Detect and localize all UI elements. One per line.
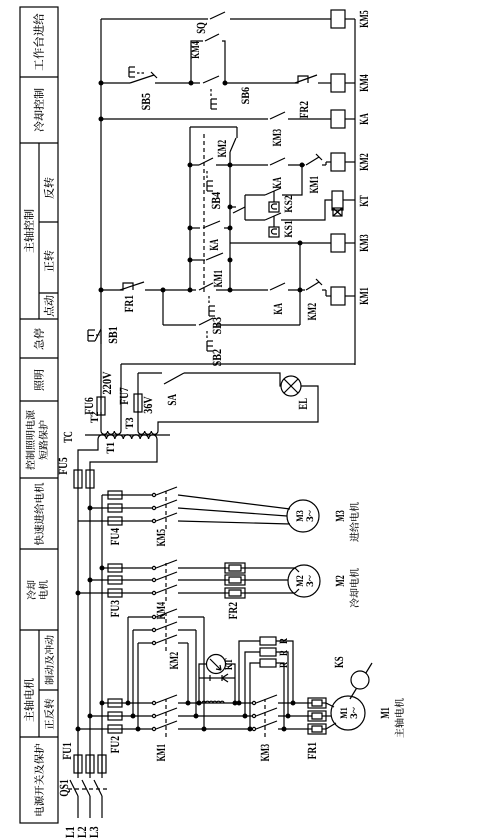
svg-text:SB6: SB6: [240, 87, 252, 105]
inductor on phase a: [202, 701, 224, 703]
svg-text:KM1: KM1: [211, 270, 225, 287]
node R loop b bottom: [286, 714, 290, 718]
node FR1 branch junction: [99, 288, 103, 292]
header cell spindle-control sub dividers: [38, 143, 40, 319]
wire FR1 branch upper: [101, 289, 120, 291]
wire jog tie: [299, 243, 301, 325]
wire bus L2 after QS1: [89, 488, 91, 778]
wire KM3 coil branch: [230, 242, 331, 244]
header label reverse: [44, 188, 54, 198]
resistor R phase b: [245, 652, 260, 716]
wire lighting return: [158, 386, 318, 431]
svg-text:FU5: FU5: [56, 457, 70, 474]
pushbutton SB6 start: [203, 76, 219, 83]
wire rail gap at SB1: [100, 330, 102, 344]
overload FR1 heaters: [308, 698, 326, 708]
wire KM4 branch upper: [101, 82, 130, 84]
resistor R phase c: [250, 663, 260, 729]
node N1: [161, 288, 165, 292]
node KM2 tap a: [126, 701, 130, 705]
svg-text:KM4: KM4: [357, 74, 371, 92]
wire spindle to FR1: [278, 702, 308, 704]
fuse FU4: [108, 491, 122, 499]
coil KM4: [331, 74, 345, 92]
node jog tie on KM3 branch: [298, 241, 302, 245]
svg-text:KM2: KM2: [305, 303, 319, 320]
wire rapid phases top: [78, 520, 108, 522]
wire KS2 output: [282, 165, 302, 195]
wire cooling to FR2: [178, 567, 225, 569]
wire N1 to SB2 branch: [162, 290, 164, 325]
node cooling tap L2: [88, 578, 92, 582]
fuse FU2: [108, 699, 122, 707]
wire KS bracket: [244, 195, 246, 220]
coil KM2: [331, 153, 345, 171]
lamp EL: [281, 376, 301, 396]
wire cooling mid: [122, 567, 152, 569]
contactor KM4 main contacts: [152, 566, 155, 569]
label spindle motor text: [395, 728, 404, 737]
thermal contact FR2: [295, 75, 317, 83]
wire KM2 crossover to phase c: [178, 616, 204, 618]
thermal contact FR1: [120, 282, 144, 290]
wire T2 to FU6: [100, 412, 102, 431]
svg-text:KM1: KM1: [307, 176, 321, 193]
node KA branch top: [99, 117, 103, 121]
wire to KM1 coil: [322, 289, 326, 291]
node R loop a top: [237, 701, 241, 705]
contact KM1 selfhold: [190, 259, 205, 261]
fuse FU5 phase b: [86, 470, 94, 488]
wire tie Ta: [189, 127, 191, 290]
node SB4 top: [188, 163, 192, 167]
svg-text:R: R: [278, 649, 290, 655]
svg-text:KM5: KM5: [154, 529, 168, 546]
svg-text:KM2: KM2: [357, 153, 371, 170]
wire SB4 lower: [216, 164, 268, 166]
fuse FU3: [108, 564, 122, 572]
pushbutton SB2 jog: [199, 318, 213, 325]
pushbutton SB4 start rev: [190, 164, 199, 166]
wire control bottom rail: [354, 19, 356, 365]
node R loop a bottom: [291, 701, 295, 705]
svg-text:KA: KA: [357, 113, 371, 125]
link KS to Tb with NC: [230, 206, 236, 208]
motor M3: [287, 500, 319, 532]
transformer T1 primary winding: [98, 435, 157, 439]
fuse FU5 phase a: [74, 470, 82, 488]
resistor R phase a: [239, 641, 260, 703]
wire KM2 top tie b: [132, 630, 134, 716]
wire tie Tb: [229, 152, 231, 290]
header label spindle control: [24, 242, 34, 252]
svg-text:FU4: FU4: [108, 527, 122, 545]
interlock KM2 NC on KM1 branch: [306, 282, 319, 290]
wire FU7 to SA: [137, 373, 139, 394]
header label fwd-rev: [44, 720, 53, 730]
contact KM3 aux: [270, 112, 285, 119]
wire KA branch: [101, 118, 268, 120]
wire KS1 to KT: [281, 200, 332, 220]
wire KM3aux to KA coil: [288, 118, 331, 120]
speed relay KS: [351, 671, 369, 689]
wire spindle phases down: [178, 702, 252, 704]
header label jog: [44, 307, 54, 317]
speed contact KS2: [245, 194, 265, 196]
mechanical link dashed row: [203, 134, 205, 292]
header label brake and jog: [45, 675, 54, 684]
node KS2 join: [300, 163, 304, 167]
header table column dividers: [20, 736, 58, 738]
label cooling motor text: [350, 598, 359, 607]
header label e-stop: [34, 340, 44, 350]
wire FR1 to node N1: [145, 289, 163, 291]
node KM2 tap c: [136, 727, 140, 731]
svg-text:KM2: KM2: [167, 652, 181, 669]
svg-text:FR1: FR1: [122, 295, 136, 312]
svg-text:KM3: KM3: [270, 129, 284, 146]
coil KT time relay: [332, 191, 343, 210]
svg-text:KM4: KM4: [190, 41, 202, 59]
wire bus L1: [77, 796, 79, 818]
clutch KT device frame: [199, 664, 235, 703]
coil KM3: [331, 234, 345, 252]
wire bus L1 after QS1: [77, 488, 79, 778]
wire SA to EL: [184, 373, 281, 386]
node jog tie on KM1 branch: [298, 288, 302, 292]
header label table feed: [34, 60, 43, 71]
wire T3 to FU7: [137, 411, 139, 431]
node R loop c top: [248, 727, 252, 731]
contact KA3 on KM2 branch: [270, 158, 285, 165]
svg-text:FR1: FR1: [305, 742, 319, 759]
wire KM5 branch: [101, 18, 208, 20]
transformer T3 secondary winding: [138, 431, 158, 434]
node spindle tap L3: [100, 701, 104, 705]
wire cooling phases top: [78, 592, 108, 594]
svg-text:KS2: KS2: [283, 195, 295, 213]
svg-text:SB5: SB5: [139, 93, 153, 110]
fuse FU6: [97, 397, 105, 415]
node cooling tap L1: [76, 591, 80, 595]
wire KM1 branch mid: [288, 289, 305, 291]
contact KA rung: [190, 227, 200, 229]
svg-text:3~: 3~: [349, 706, 360, 719]
node Ta left: [188, 288, 192, 292]
interlock KM1 NC on KM2 branch: [306, 157, 319, 165]
svg-text:SB4: SB4: [209, 191, 223, 209]
svg-text:3~: 3~: [305, 574, 316, 587]
svg-text:SB3: SB3: [210, 317, 224, 334]
pushbutton SB5 stop: [130, 75, 154, 83]
svg-text:KM1: KM1: [154, 744, 168, 761]
coil KA: [331, 110, 345, 128]
fuse FU1: [74, 755, 82, 773]
wire KM2 branch mid: [288, 164, 305, 166]
svg-text:TC: TC: [61, 431, 75, 443]
node spindle tap L2: [88, 714, 92, 718]
svg-text:3~: 3~: [305, 509, 316, 522]
label feed motor text: [350, 532, 359, 541]
rectifier KT circle: [207, 655, 226, 674]
contact KA2 on KM1 branch: [270, 283, 285, 290]
svg-text:FU6: FU6: [82, 397, 96, 414]
node selfhold top: [189, 81, 193, 85]
motor M2: [288, 565, 320, 597]
node rapid tap L2: [88, 506, 92, 510]
wire FR1 to M1: [326, 703, 334, 707]
svg-text:KM1: KM1: [357, 287, 371, 304]
coil KM5: [331, 10, 345, 28]
node selfhold bottom: [223, 81, 227, 85]
clutch KT armature: [199, 677, 210, 679]
svg-text:M3: M3: [333, 510, 347, 522]
wire SB3 upper: [163, 289, 196, 291]
wire SB5 to SB6: [155, 82, 200, 84]
node R loop b top: [243, 714, 247, 718]
motor M1: [331, 696, 365, 730]
node R loop c bottom: [282, 727, 286, 731]
wire bus L3 after QS1: [101, 495, 103, 778]
svg-text:KS1: KS1: [283, 220, 295, 238]
wire spindle phase c: [102, 702, 108, 704]
header label lighting: [34, 380, 44, 390]
svg-text:220V: 220V: [100, 371, 114, 394]
wire KM2 crossover to phase a: [178, 642, 188, 644]
node KM4 branch top: [99, 81, 103, 85]
wire KM2 top tie a: [127, 617, 129, 703]
svg-text:KS: KS: [332, 656, 346, 668]
svg-text:KA: KA: [271, 303, 285, 315]
svg-text:KM3: KM3: [258, 744, 272, 761]
svg-text:M2: M2: [333, 575, 347, 587]
svg-text:KM2: KM2: [215, 140, 229, 157]
header label coolant control: [34, 121, 44, 131]
wire KM2 crossover to phase b: [178, 629, 196, 631]
node Tb left: [228, 288, 232, 292]
svg-text:KM3: KM3: [357, 234, 371, 251]
wire FR2 to M2: [245, 567, 295, 569]
svg-text:R: R: [278, 637, 290, 643]
wire KM2 top tie c: [137, 643, 139, 729]
wire SB6 to FR2: [223, 82, 295, 84]
svg-text:KT: KT: [357, 195, 371, 207]
wire control top rail: [100, 19, 102, 400]
speed relay KS shaft: [350, 663, 372, 699]
wire SB2 branch lower: [216, 324, 300, 326]
svg-text:R: R: [278, 661, 290, 667]
svg-text:T1: T1: [105, 442, 117, 454]
svg-text:SQ: SQ: [194, 22, 208, 34]
wire spindle phase a: [78, 728, 108, 730]
svg-text:FU1: FU1: [60, 742, 74, 759]
header cell spindle-motor sub dividers: [38, 630, 40, 737]
pushbutton SB3 start fwd: [199, 283, 213, 290]
svg-text:FR2: FR2: [226, 602, 240, 619]
svg-text:KA: KA: [270, 177, 284, 189]
wire SB3 lower: [216, 289, 268, 291]
svg-text:FU2: FU2: [108, 736, 122, 753]
contactor KM5 main contacts: [152, 493, 155, 496]
coil KM1: [331, 287, 345, 305]
svg-text:FU7: FU7: [117, 387, 131, 404]
header label forward: [44, 261, 53, 271]
transformer TC core: [85, 434, 170, 436]
svg-text:KA: KA: [207, 239, 221, 251]
contactor KM3 main contacts: [252, 701, 255, 704]
node Tb right: [228, 163, 232, 167]
switch QS1: [70, 780, 78, 796]
transformer T2 secondary winding: [101, 431, 121, 434]
contactor KM1 main contacts: [152, 701, 155, 704]
wire bus L2: [89, 796, 91, 818]
node cooling tap L3: [100, 566, 104, 570]
wire SQ to KM5 coil: [230, 18, 331, 20]
switch SQ: [210, 12, 225, 19]
switch SA: [164, 373, 184, 384]
wire spindle to KM1: [122, 702, 152, 704]
contact KM2 aux: [230, 138, 236, 152]
svg-text:SA: SA: [165, 394, 179, 406]
svg-text:T3: T3: [124, 417, 136, 429]
header label spindle motor: [24, 711, 34, 721]
svg-text:EL: EL: [296, 398, 310, 410]
contactor KM2 main contacts: [152, 615, 155, 618]
header table frame: [20, 7, 58, 823]
svg-text:KM4: KM4: [154, 602, 168, 620]
wire spindle phase b: [90, 715, 108, 717]
wire KM5 to M3: [178, 495, 290, 509]
svg-text:KM5: KM5: [357, 10, 371, 27]
header label control-lighting supply protection: [26, 460, 35, 469]
overload FR2 heaters: [225, 563, 245, 573]
wire bus L3: [101, 796, 103, 818]
svg-text:FU3: FU3: [108, 600, 122, 617]
wire to KM2 coil: [322, 164, 326, 166]
svg-text:FR2: FR2: [297, 101, 311, 118]
wire Ta corner down: [190, 126, 237, 128]
wire rapid mid: [122, 494, 152, 496]
svg-text:KT: KT: [224, 658, 235, 670]
speed contact KS1: [245, 219, 265, 221]
svg-text:SB1: SB1: [106, 326, 120, 343]
wire SB2 branch upper: [163, 324, 196, 326]
svg-text:L3: L3: [87, 826, 101, 838]
wire FR2 to KM4 coil: [318, 82, 331, 84]
header label coolant motor: [27, 590, 36, 599]
wire T2 bottom lead to neutral: [120, 364, 122, 431]
wire neutral return: [121, 363, 355, 365]
pushbutton SB1 e-stop: [95, 329, 101, 341]
contact KM4 selfhold: [191, 41, 203, 83]
fuse FU7: [134, 394, 142, 412]
header label power switch and protection: [34, 807, 43, 816]
header label rapid feed motor: [34, 535, 44, 545]
svg-text:36V: 36V: [141, 396, 155, 413]
node spindle tap L1: [76, 727, 80, 731]
node KM2 tap b: [131, 714, 135, 718]
svg-text:M1: M1: [378, 707, 392, 719]
svg-text:QS1: QS1: [57, 779, 71, 796]
